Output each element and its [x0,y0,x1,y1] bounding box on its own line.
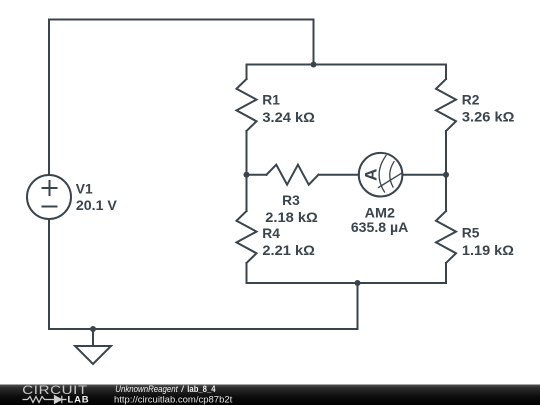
logo diode [55,396,67,403]
ammeter AM2 body [359,153,403,197]
svg-text:LAB: LAB [68,395,90,405]
wire left bridge upper lead [246,65,248,80]
wire left rail lower (V1 bottom lead) [48,219,50,329]
svg-text:2.21 kΩ: 2.21 kΩ [262,243,315,258]
node junction bottom bridge [355,280,361,286]
svg-text:635.8 µA: 635.8 µA [351,220,409,235]
wire bottom return [49,328,358,330]
svg-text:A: A [362,169,381,181]
wire right bridge lower lead [445,263,447,283]
ground stub [92,329,94,346]
svg-text:1.19 kΩ: 1.19 kΩ [462,243,514,258]
node junction middle right [443,172,449,178]
svg-text:R4: R4 [262,226,280,241]
wire middle to ammeter [319,174,359,176]
node junction ground [90,326,96,332]
resistor R4 [237,211,257,263]
svg-text:http://circuitlab.com/cp87b2t: http://circuitlab.com/cp87b2t [114,395,233,405]
svg-text:3.24 kΩ: 3.24 kΩ [262,110,315,125]
svg-text:R5: R5 [462,226,480,241]
node junction middle left [244,172,250,178]
voltage source V1 body [27,175,71,219]
wire left rail upper (V1 top lead) [48,20,50,176]
wire ammeter to right rail [402,174,446,176]
svg-text:R3: R3 [282,193,300,208]
node junction top [311,62,317,68]
wire bridge bottom drop [357,283,359,329]
wire right bridge middle lead [445,131,447,211]
wire right bridge upper lead [445,65,447,80]
svg-text:UnknownReagent / lab_8_4: UnknownReagent / lab_8_4 [115,384,216,395]
svg-text:R1: R1 [262,93,280,108]
ammeter AM2 scale arc 2 [390,162,394,187]
wire bridge top [247,64,447,66]
ammeter AM2 needle [379,174,402,188]
wire middle left segment [247,174,267,176]
V1 plus sign [43,181,57,195]
wire left bridge middle lead [246,131,248,211]
wire bridge bottom [247,282,447,284]
logo resistor zigzag [23,397,55,403]
svg-text:AM2: AM2 [365,205,396,220]
resistor R2 [436,79,456,131]
svg-text:3.26 kΩ: 3.26 kΩ [462,110,515,125]
resistor R3 [267,165,319,185]
resistor R5 [436,211,456,263]
svg-text:20.1 V: 20.1 V [76,198,118,213]
V1 minus sign [43,206,57,208]
ammeter AM2 scale arc 1 [379,156,386,193]
svg-text:V1: V1 [76,182,93,197]
svg-text:R2: R2 [462,93,480,108]
svg-text:2.18 kΩ: 2.18 kΩ [265,210,318,225]
resistor R1 [237,79,257,131]
footer bar [0,385,540,405]
wire top from V1 to bridge [49,20,314,65]
wire left bridge lower lead [246,263,248,283]
ground symbol [75,346,111,364]
